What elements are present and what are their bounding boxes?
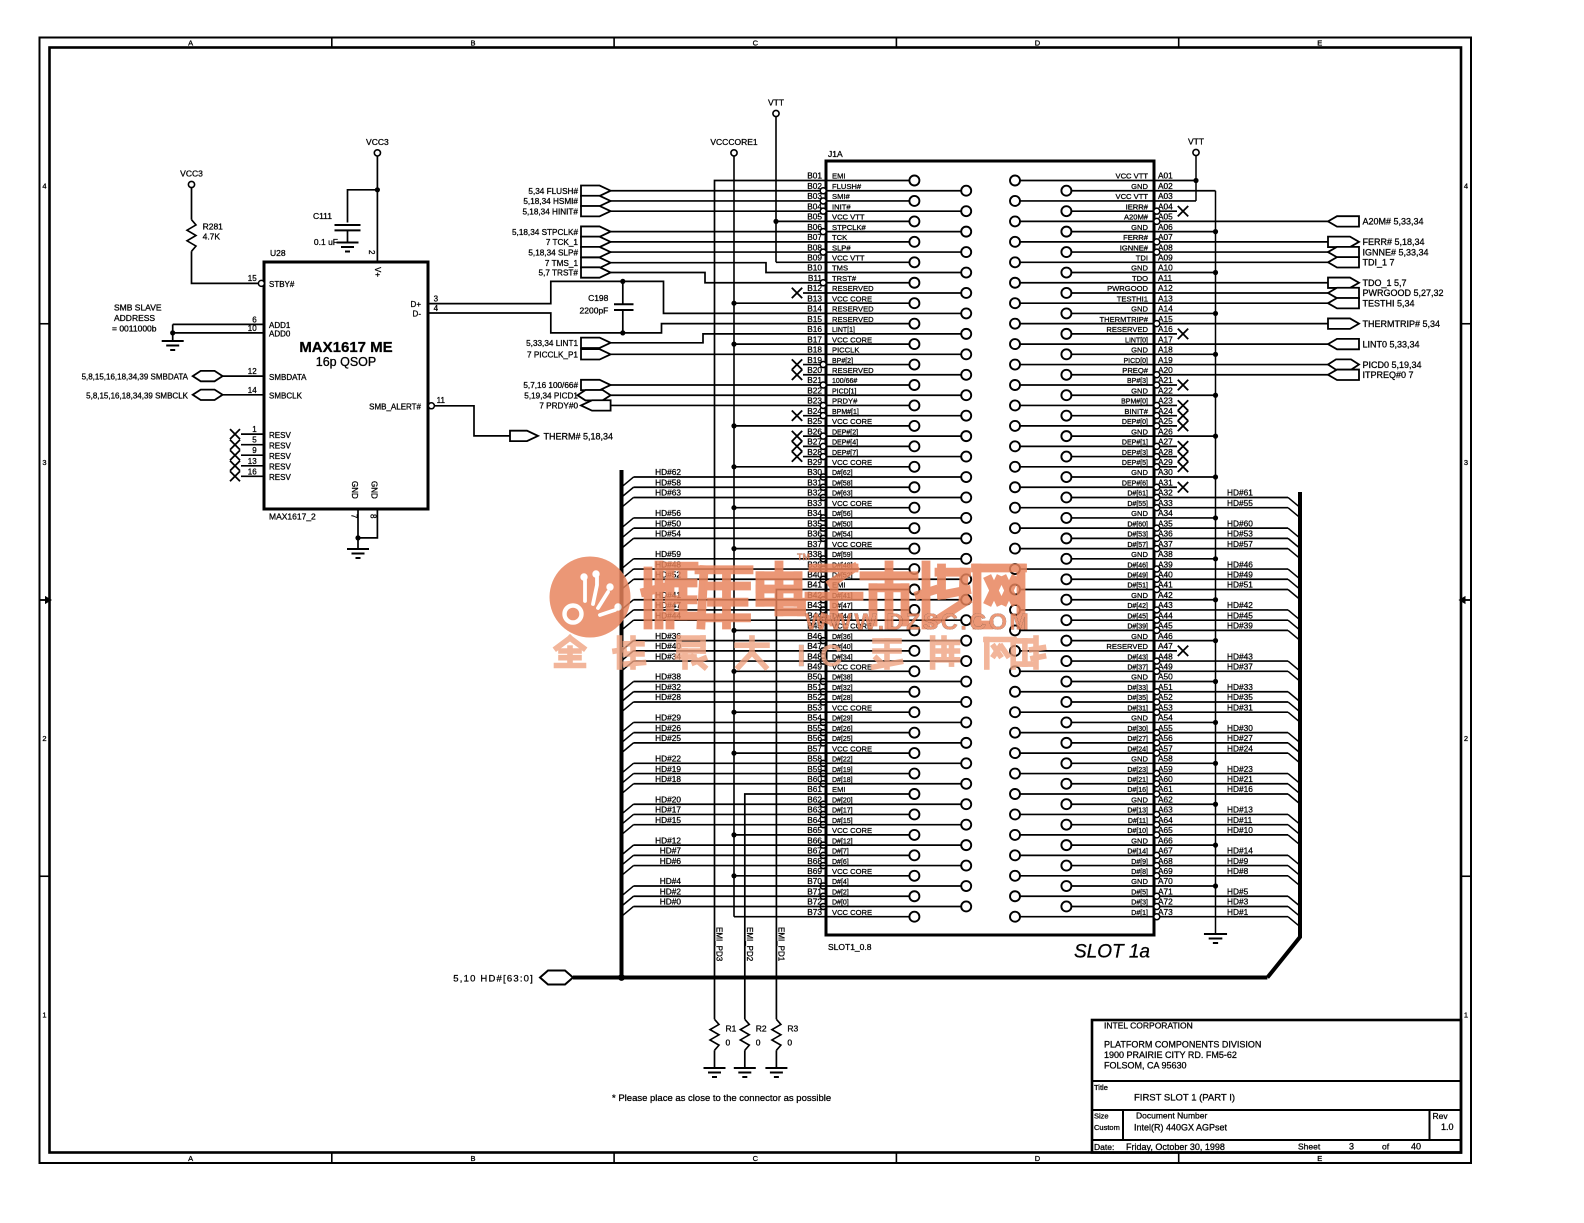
- wire bus entry HD#48 to B39: [622, 559, 827, 579]
- svg-text:STBY#: STBY#: [269, 280, 295, 289]
- connector J1A pin A49 D#[37]: [1010, 662, 1173, 677]
- connector J1A pin B72 D#[0]: [807, 897, 971, 912]
- svg-text:BPM#[0]: BPM#[0]: [1121, 399, 1148, 406]
- wire R2 to ground: [744, 1050, 746, 1068]
- svg-text:HD#58: HD#58: [655, 477, 681, 487]
- power symbol VTT (B side): [768, 98, 784, 117]
- svg-text:GND: GND: [1131, 632, 1148, 641]
- svg-text:HD#39: HD#39: [1227, 621, 1253, 631]
- svg-text:HD#50: HD#50: [655, 518, 681, 528]
- svg-text:A: A: [188, 39, 193, 48]
- net flag LINT0: [1328, 339, 1420, 349]
- wire bus entry HD#24 to A57: [1160, 743, 1300, 763]
- svg-text:A70: A70: [1158, 876, 1173, 886]
- SMB slave address note: [112, 303, 162, 334]
- connector J1A pin B65 VCC CORE: [807, 825, 919, 840]
- svg-text:A38: A38: [1158, 549, 1173, 559]
- net flag SMBCLK: [86, 390, 222, 401]
- svg-text:0: 0: [787, 1038, 792, 1048]
- svg-text:D#[3]: D#[3]: [1131, 900, 1148, 907]
- connector J1A pin B22 PICD[1]: [807, 385, 971, 400]
- svg-text:A10: A10: [1158, 263, 1173, 273]
- bus HD left vertical: [618, 470, 625, 981]
- resistor R3 0 ohm: [772, 1019, 799, 1050]
- wire A20 to flag ITPREQ#0: [1160, 374, 1328, 376]
- U28 pin 14 SMBCLK: [248, 386, 303, 401]
- connector J1A pin B21 100/66#: [807, 375, 919, 390]
- net flag TMS_1 to J1A pin B10: [545, 258, 611, 268]
- svg-text:Size: Size: [1094, 1112, 1109, 1121]
- net flag PICCLK_P1 to J1A pin B18: [527, 349, 611, 359]
- svg-text:BP#[2]: BP#[2]: [832, 358, 853, 365]
- connector J1A pin B46 D#[36]: [807, 631, 971, 646]
- connector J1A pin B37 VCC CORE: [807, 539, 919, 554]
- connector J1A pin B69 VCC CORE: [807, 866, 919, 881]
- svg-text:D#[56]: D#[56]: [832, 511, 853, 518]
- svg-text:0: 0: [756, 1038, 761, 1048]
- svg-text:R281: R281: [203, 222, 224, 232]
- svg-text:D#[31]: D#[31]: [1127, 705, 1148, 712]
- wire R281 to STBY# pin 15: [192, 251, 259, 283]
- svg-text:B12: B12: [807, 283, 822, 293]
- svg-text:HD#32: HD#32: [655, 682, 681, 692]
- connector J1A pin B47 D#[40]: [807, 641, 919, 656]
- wire HINIT#: [611, 210, 826, 212]
- wire HSMI#: [611, 200, 826, 202]
- U28 pin 1 RESV (no connect): [230, 425, 291, 440]
- svg-text:HD#14: HD#14: [1227, 846, 1253, 856]
- svg-text:INTEL CORPORATION: INTEL CORPORATION: [1104, 1021, 1193, 1031]
- svg-text:5,8,15,16,18,34,39 SMBDATA: 5,8,15,16,18,34,39 SMBDATA: [82, 373, 189, 382]
- connector J1A pin A21 BP#[3]: [1010, 375, 1188, 390]
- connector J1A pin A45 D#[39]: [1010, 621, 1173, 636]
- connector J1A pin B36 D#[54]: [807, 529, 971, 544]
- svg-text:A42: A42: [1158, 590, 1173, 600]
- connector J1A pin A20 PREQ#: [1061, 365, 1173, 380]
- wire A09 to flag TDI_1: [1154, 261, 1328, 263]
- net flag PWRGOOD: [1328, 288, 1444, 298]
- svg-text:FIRST SLOT 1 (PART I): FIRST SLOT 1 (PART I): [1134, 1093, 1235, 1104]
- svg-text:VCC CORE: VCC CORE: [832, 458, 872, 467]
- wire bus entry HD#57 to A37: [1160, 539, 1300, 559]
- connector J1A pin A09 TDI: [1010, 253, 1173, 268]
- svg-text:VCC CORE: VCC CORE: [832, 703, 872, 712]
- svg-text:DEP#[3]: DEP#[3]: [1122, 450, 1148, 457]
- svg-text:HD#54: HD#54: [655, 529, 681, 539]
- connector J1A pin A03 VCC VTT: [1010, 191, 1173, 206]
- svg-text:HD#17: HD#17: [655, 805, 681, 815]
- net flag 100/66# to J1A pin B21: [523, 380, 610, 390]
- svg-text:1: 1: [1464, 1010, 1468, 1019]
- connector J1A pin A73 D#[1]: [1010, 907, 1173, 922]
- connector J1A pin A44 D#[45]: [1061, 610, 1173, 625]
- svg-text:BINIT#: BINIT#: [1124, 407, 1148, 416]
- svg-text:A66: A66: [1158, 835, 1173, 845]
- connector J1A pin B02 FLUSH#: [807, 181, 971, 196]
- connector J1A pin B73 VCC CORE: [807, 907, 919, 922]
- svg-text:C111: C111: [313, 211, 332, 221]
- svg-text:D#[53]: D#[53]: [1127, 532, 1148, 539]
- connector J1A pin A17 LINT[0]: [1010, 334, 1173, 349]
- wire VTT to A01/A03: [1154, 156, 1199, 201]
- svg-text:B57: B57: [807, 743, 822, 753]
- wire bus entry HD#3 to A72: [1160, 897, 1300, 917]
- svg-text:GND: GND: [350, 481, 359, 499]
- wire A05 to flag A20M#: [1160, 220, 1328, 222]
- connector J1A pin B57 VCC CORE: [807, 743, 919, 758]
- svg-text:PICD0 5,19,34: PICD0 5,19,34: [1363, 360, 1422, 370]
- svg-text:5,19,34 PICD1: 5,19,34 PICD1: [524, 391, 578, 400]
- connector J1A pin B64 D#[15]: [807, 815, 971, 830]
- svg-text:D#[17]: D#[17]: [832, 808, 853, 815]
- connector J1A pin A14 GND: [1061, 304, 1173, 319]
- wire EMI_PD1 (B41): [776, 590, 826, 1020]
- svg-text:HD#5: HD#5: [1227, 886, 1249, 896]
- svg-text:B01: B01: [807, 171, 822, 181]
- svg-text:D#[22]: D#[22]: [832, 757, 853, 764]
- connector J1A pin B34 D#[56]: [807, 508, 971, 523]
- wire to capacitor C111: [348, 190, 378, 223]
- U28 pin 13 RESV (no connect): [230, 457, 291, 472]
- ground R1: [704, 1068, 726, 1077]
- svg-text:HD#8: HD#8: [1227, 866, 1249, 876]
- connector J1A pin B07 TCK: [807, 232, 919, 247]
- net flag STPCLK# to J1A pin B06: [512, 226, 611, 236]
- svg-text:TMS: TMS: [832, 264, 848, 273]
- svg-text:1: 1: [42, 1010, 46, 1019]
- svg-text:GND: GND: [1131, 755, 1148, 764]
- svg-text:D#[62]: D#[62]: [832, 470, 853, 477]
- connector J1A pin A40 D#[49]: [1061, 569, 1173, 584]
- svg-text:D#[6]: D#[6]: [832, 859, 849, 866]
- svg-text:BPM#[1]: BPM#[1]: [832, 409, 859, 416]
- connector J1A pin B35 D#[50]: [807, 518, 919, 533]
- wire bus entry HD#45 to A44: [1160, 610, 1300, 630]
- junction GND pins: [355, 535, 360, 549]
- svg-text:VCC CORE: VCC CORE: [832, 744, 872, 753]
- svg-text:D#[30]: D#[30]: [1127, 726, 1148, 733]
- svg-text:GND: GND: [1131, 714, 1148, 723]
- svg-text:GND: GND: [1131, 386, 1148, 395]
- svg-text:= 0011000b: = 0011000b: [112, 324, 157, 334]
- svg-text:D#[55]: D#[55]: [1127, 501, 1148, 508]
- connector J1A pin B33 VCC CORE: [807, 498, 919, 513]
- connector J1A pin A32 D#[61]: [1061, 488, 1173, 503]
- svg-text:GND: GND: [370, 481, 379, 499]
- capacitor C198 2200pF: [580, 279, 634, 336]
- connector J1A pin A13 TESTHI1: [1010, 293, 1173, 308]
- wire R3 to ground: [775, 1050, 777, 1068]
- wire bus entry HD#55 to A33: [1160, 498, 1300, 518]
- svg-text:D#[33]: D#[33]: [1127, 685, 1148, 692]
- svg-text:D#[39]: D#[39]: [1127, 624, 1148, 631]
- svg-text:EMI: EMI: [832, 785, 846, 794]
- connector J1A pin B41 EMI: [807, 580, 919, 595]
- connector J1A pin A35 D#[60]: [1010, 518, 1173, 533]
- svg-text:B41: B41: [807, 580, 822, 590]
- wire bus entry HD#4 to B70: [622, 876, 827, 896]
- svg-text:RESV: RESV: [269, 431, 291, 440]
- svg-text:A22: A22: [1158, 385, 1173, 395]
- svg-text:A01: A01: [1158, 171, 1173, 181]
- svg-text:GND: GND: [1131, 468, 1148, 477]
- svg-text:C: C: [820, 638, 842, 673]
- svg-text:GND: GND: [1131, 305, 1148, 314]
- wire bus entry HD#39 to A45: [1160, 621, 1300, 641]
- svg-text:VCC CORE: VCC CORE: [832, 335, 872, 344]
- svg-text:D#[59]: D#[59]: [832, 552, 853, 559]
- svg-text:B14: B14: [807, 304, 822, 314]
- svg-text:VCC CORE: VCC CORE: [832, 417, 872, 426]
- connector J1A pin A42 GND: [1061, 590, 1173, 605]
- resistor R281 4.7K: [187, 220, 223, 252]
- resistor R2 0 ohm: [740, 1019, 767, 1050]
- svg-text:R1: R1: [726, 1024, 737, 1034]
- title block company: [1104, 1021, 1261, 1071]
- ground U28: [347, 549, 369, 558]
- net flag LINT1 to J1A pin B16: [526, 338, 610, 348]
- svg-text:HD#9: HD#9: [1227, 856, 1249, 866]
- svg-text:D#[18]: D#[18]: [832, 777, 853, 784]
- svg-text:GND: GND: [1131, 223, 1148, 232]
- title block title: [1094, 1083, 1235, 1104]
- wire PRDY#0: [611, 404, 826, 406]
- svg-text:B17: B17: [807, 334, 822, 344]
- svg-text:B18: B18: [807, 345, 822, 355]
- svg-text:B15: B15: [807, 314, 822, 324]
- U28 pin 5 RESV (no connect): [230, 436, 291, 451]
- svg-text:7 TMS_1: 7 TMS_1: [545, 259, 579, 268]
- wire bus entry HD#56 to B34: [622, 508, 827, 528]
- connector J1A pin A06 GND: [1061, 222, 1173, 237]
- wire A13 to flag TESTHI: [1154, 302, 1328, 304]
- connector J1A pin A48 D#[43]: [1061, 651, 1173, 666]
- connector J1A pin B26 DEP#[2]: [792, 426, 971, 441]
- wire bus entry HD#15 to B64: [622, 815, 827, 835]
- wire bus entry HD#23 to A59: [1160, 764, 1300, 784]
- svg-text:TRST#: TRST#: [832, 274, 857, 283]
- connector J1A pin A62 GND: [1061, 794, 1173, 809]
- connector J1A pin B70 D#[4]: [807, 876, 971, 891]
- svg-text:GND: GND: [1131, 795, 1148, 804]
- wire LINT1: [611, 334, 826, 343]
- svg-text:VCC CORE: VCC CORE: [832, 867, 872, 876]
- svg-text:A16: A16: [1158, 324, 1173, 334]
- U28 pin 3 D+: [411, 295, 439, 310]
- svg-text:PWRGOOD: PWRGOOD: [1107, 284, 1148, 293]
- net flag SMBDATA: [82, 371, 223, 382]
- svg-text:HD#38: HD#38: [655, 672, 681, 682]
- connector J1A pin A28 DEP#[3]: [1061, 447, 1188, 462]
- connector J1A pin B25 VCC CORE: [807, 416, 919, 431]
- svg-text:HD#24: HD#24: [1227, 743, 1253, 753]
- svg-text:B20: B20: [807, 365, 822, 375]
- wire bus entry HD#9 to A68: [1160, 856, 1300, 876]
- connector J1A pin A08 IGNNE#: [1061, 242, 1173, 257]
- svg-text:HD#62: HD#62: [655, 467, 681, 477]
- svg-text:D#[13]: D#[13]: [1127, 808, 1148, 815]
- svg-text:DEP#[7]: DEP#[7]: [832, 450, 858, 457]
- svg-text:D#[24]: D#[24]: [1127, 746, 1148, 753]
- svg-text:HD#25: HD#25: [655, 733, 681, 743]
- wire bus entry HD#13 to A63: [1160, 805, 1300, 825]
- wire A17 to flag LINT0: [1154, 343, 1328, 345]
- capacitor C111 0.1 uF: [313, 211, 361, 247]
- net flag TESTHI: [1328, 298, 1415, 308]
- connector J1A pin A07 FERR#: [1010, 232, 1173, 247]
- wire bus entry HD#38 to B50: [622, 672, 827, 692]
- svg-text:HD#12: HD#12: [655, 835, 681, 845]
- wire bus entry HD#44 to B44: [622, 610, 827, 630]
- wire A07 to flag FERR#: [1160, 241, 1328, 243]
- svg-text:D#[63]: D#[63]: [832, 491, 853, 498]
- svg-text:HD#42: HD#42: [1227, 600, 1253, 610]
- net flag SLP# to J1A pin B08: [528, 247, 610, 257]
- wire A19 to flag PICD0: [1154, 364, 1328, 366]
- connector J1A pin B51 D#[32]: [807, 682, 919, 697]
- svg-text:HD#31: HD#31: [1227, 702, 1253, 712]
- svg-text:VCC CORE: VCC CORE: [832, 499, 872, 508]
- svg-text:D#[11]: D#[11]: [1128, 818, 1148, 825]
- connector J1A pin B60 D#[18]: [807, 774, 971, 789]
- resistor R1 0 ohm: [710, 1019, 737, 1050]
- connector J1A pin A66 GND: [1061, 835, 1173, 850]
- wire bus entry HD#11 to A64: [1160, 815, 1300, 835]
- svg-text:THERMTRIP#: THERMTRIP#: [1099, 315, 1148, 324]
- connector J1A pin B14 RESERVED: [807, 304, 971, 319]
- svg-text:7: 7: [350, 514, 359, 519]
- power symbol VCC3 (C111/V+): [366, 137, 389, 156]
- svg-text:HD#3: HD#3: [1227, 897, 1249, 907]
- ground GND rail: [1204, 934, 1227, 943]
- connector J1A pin B16 LINT[1]: [807, 324, 971, 339]
- wire R1 to ground: [714, 1050, 716, 1068]
- svg-text:HD#19: HD#19: [655, 764, 681, 774]
- wire bus entry HD#10 to A65: [1160, 825, 1300, 845]
- svg-text:VCC VTT: VCC VTT: [832, 254, 865, 263]
- svg-text:TESTHI1: TESTHI1: [1117, 294, 1148, 303]
- connector J1A pin B11 TRST#: [808, 273, 920, 288]
- svg-text:PICD[1]: PICD[1]: [832, 388, 857, 395]
- svg-text:12: 12: [248, 367, 257, 376]
- svg-text:HD#11: HD#11: [1227, 815, 1253, 825]
- wire bus entry HD#42 to A43: [1160, 600, 1300, 620]
- svg-text:FLUSH#: FLUSH#: [832, 182, 862, 191]
- net flag FERR#: [1328, 237, 1425, 247]
- net flag FLUSH# to J1A pin B02: [528, 186, 610, 196]
- svg-text:B09: B09: [807, 253, 822, 263]
- wire bus entry HD#36 to B46: [622, 631, 827, 651]
- border column labels bottom: [188, 1154, 1322, 1163]
- svg-text:GND: GND: [1131, 346, 1148, 355]
- connector J1A pin A72 D#[3]: [1061, 897, 1173, 912]
- wire TRST#: [611, 273, 826, 283]
- svg-text:PLATFORM COMPONENTS DIVISION: PLATFORM COMPONENTS DIVISION: [1104, 1040, 1261, 1050]
- svg-text:E: E: [1317, 39, 1322, 48]
- svg-text:HD#49: HD#49: [1227, 569, 1253, 579]
- connector J1A pin B08 SLP#: [807, 242, 971, 257]
- svg-text:RESV: RESV: [269, 442, 291, 451]
- svg-text:5,7,16 100/66#: 5,7,16 100/66#: [523, 381, 578, 390]
- svg-text:A19: A19: [1158, 355, 1173, 365]
- svg-text:Title: Title: [1094, 1083, 1108, 1092]
- svg-text:B05: B05: [807, 212, 822, 222]
- svg-text:GND: GND: [1131, 591, 1148, 600]
- svg-text:D#[37]: D#[37]: [1127, 665, 1148, 672]
- wire bus entry HD#51 to A41: [1160, 580, 1300, 600]
- net flag HSMI# to J1A pin B03: [523, 196, 610, 206]
- svg-text:HD#23: HD#23: [1227, 764, 1253, 774]
- svg-text:A58: A58: [1158, 754, 1173, 764]
- svg-text:B61: B61: [807, 784, 822, 794]
- sheet center alignment arrows: [40, 597, 1471, 603]
- wire bus entry HD#53 to A36: [1160, 529, 1300, 549]
- svg-text:A20M# 5,33,34: A20M# 5,33,34: [1363, 217, 1424, 227]
- connector J1A pin A53 D#[31]: [1010, 702, 1173, 717]
- net flag PRDY#0 to J1A pin B23: [539, 400, 610, 410]
- connector J1A pin B54 D#[29]: [807, 713, 971, 728]
- svg-text:B: B: [470, 39, 475, 48]
- net flag HINIT# to J1A pin B04: [522, 206, 610, 216]
- connector J1A pin B50 D#[38]: [807, 672, 971, 687]
- wire A15 to flag THERMTRIP#: [1160, 323, 1328, 325]
- wire TMS_1: [611, 263, 826, 273]
- svg-text:I: I: [797, 638, 806, 673]
- connector J1A pin B66 D#[12]: [807, 835, 971, 850]
- svg-text:HD#30: HD#30: [1227, 723, 1253, 733]
- connector J1A pin A71 D#[5]: [1010, 886, 1173, 901]
- wire bus entry HD#34 to B48: [622, 651, 827, 671]
- svg-text:SLOT 1a: SLOT 1a: [1074, 942, 1150, 963]
- svg-text:5,7 TRST#: 5,7 TRST#: [539, 269, 579, 278]
- connector J1A pin B24 BPM#[1]: [792, 406, 971, 421]
- svg-text:VCC VTT: VCC VTT: [1116, 172, 1149, 181]
- svg-text:DEP#[2]: DEP#[2]: [832, 429, 858, 436]
- bus flag HD#[63:0]: [453, 971, 573, 985]
- wire bus entry HD#61 to A32: [1160, 488, 1300, 508]
- svg-text:D#[26]: D#[26]: [832, 726, 853, 733]
- ground below C111: [337, 230, 359, 251]
- border row labels: [42, 182, 1468, 1020]
- svg-text:IGNNE# 5,33,34: IGNNE# 5,33,34: [1363, 247, 1429, 257]
- net flag TDO_1: [1328, 278, 1407, 288]
- connector J1A pin B10 TMS: [807, 263, 971, 278]
- connector J1A pin B53 VCC CORE: [807, 702, 919, 717]
- connector J1A pin B67 D#[7]: [807, 846, 919, 861]
- connector J1A pin A26 GND: [1061, 426, 1173, 441]
- connector J1A pin B44 D#[44]: [807, 610, 971, 625]
- svg-text:HD#4: HD#4: [660, 876, 682, 886]
- svg-text:HD#16: HD#16: [1227, 784, 1253, 794]
- watermark dzsc.com overlay: [550, 552, 811, 638]
- svg-text:BP#[3]: BP#[3]: [1127, 378, 1148, 385]
- connector J1A pin B38 D#[59]: [807, 549, 971, 564]
- svg-text:A18: A18: [1158, 345, 1173, 355]
- net flag A20M#: [1328, 216, 1424, 226]
- wire bus entry HD#35 to A52: [1160, 692, 1300, 712]
- wire bus entry HD#17 to B63: [622, 805, 827, 825]
- connector J1A pin A70 GND: [1061, 876, 1173, 891]
- svg-text:D#[0]: D#[0]: [832, 900, 849, 907]
- connector J1A pin B68 D#[6]: [807, 856, 971, 871]
- svg-text:VCC CORE: VCC CORE: [832, 826, 872, 835]
- wire bus entry HD#0 to B72: [622, 897, 827, 917]
- svg-text:2: 2: [367, 250, 376, 255]
- connector J1A pin B43 D#[47]: [807, 600, 919, 615]
- svg-text:PWRGOOD 5,27,32: PWRGOOD 5,27,32: [1363, 288, 1444, 298]
- wire bus entry HD#41 to B42: [622, 590, 827, 610]
- connector J1A pin B45 VCC CORE: [807, 621, 919, 636]
